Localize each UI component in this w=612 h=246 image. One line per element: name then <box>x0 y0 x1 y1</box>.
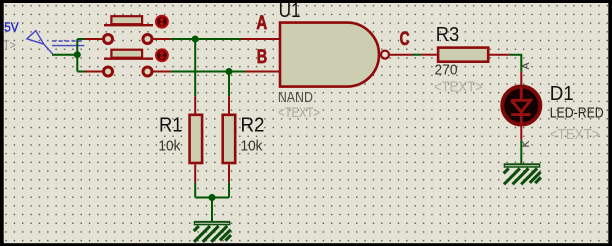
pin: button2 right pin <box>153 71 171 73</box>
wire: node B down to R2 <box>228 72 230 97</box>
wire: button2 to node B <box>171 71 246 73</box>
junction node B <box>226 68 233 75</box>
svg-text:<TEXT>: <TEXT> <box>550 126 600 143</box>
ground symbol (right) <box>504 163 541 184</box>
svg-text:B: B <box>257 47 268 68</box>
wire: LED cathode to right ground <box>520 140 522 163</box>
junction node A <box>192 36 199 43</box>
svg-text:T>: T> <box>3 40 16 52</box>
wire: branch to button2 left <box>77 71 84 73</box>
junction at power feed <box>74 51 81 58</box>
pin: LED anode pin <box>520 72 522 86</box>
U1 output inversion bubble <box>381 51 389 59</box>
wire: branch to button1 left <box>77 38 84 40</box>
pin: button1 left pin <box>85 38 104 40</box>
svg-text:<TEXT>: <TEXT> <box>278 104 320 120</box>
wire: node A down to R1 <box>194 39 196 96</box>
NAND gate U1 (74xx) <box>280 23 379 87</box>
pin: R3 left pin <box>421 54 437 56</box>
wire: bottom bus between R1 and R2 <box>195 197 229 199</box>
button SW1 actuator (interactive red dot) <box>156 16 168 28</box>
wire: button1 to node A <box>171 38 241 40</box>
svg-text:A: A <box>256 13 267 34</box>
wire: R3 to LED elbow <box>510 55 522 72</box>
wire: node C <box>413 54 422 56</box>
wire: down to left ground <box>211 198 213 222</box>
pin: button1 right pin <box>153 38 171 40</box>
power source V1 5V: blue terminal symbol <box>27 31 85 54</box>
svg-text:5V: 5V <box>4 20 19 35</box>
wire: vertical feed between button branches <box>76 39 78 72</box>
svg-text:270: 270 <box>435 61 458 78</box>
pin: NAND input A pin <box>241 38 280 40</box>
svg-text:<TEXT>: <TEXT> <box>434 79 483 96</box>
pin: R3 right pin <box>490 54 510 56</box>
pin: U1 output pin <box>389 54 413 56</box>
pin: button2 left pin <box>85 71 104 73</box>
pin: LED cathode pin <box>520 125 522 140</box>
svg-text:R2: R2 <box>241 114 265 136</box>
pin: NAND input B pin <box>245 71 280 73</box>
push button SW1 <box>104 16 154 43</box>
svg-text:U1: U1 <box>279 0 301 22</box>
svg-text:D1: D1 <box>550 83 574 105</box>
LED D1 <box>502 87 540 125</box>
pin: R2 bottom pin <box>228 164 230 182</box>
pin: R1 bottom pin <box>194 164 196 182</box>
resistor R3 <box>438 48 488 62</box>
svg-text:A: A <box>520 62 532 69</box>
button SW2 actuator (interactive red dot) <box>156 49 168 61</box>
svg-text:R1: R1 <box>159 114 183 136</box>
svg-text:LED-RED: LED-RED <box>550 104 604 121</box>
resistor R1 <box>190 115 203 163</box>
push button SW2 <box>104 50 154 76</box>
wire: R1 bottom to ground net <box>194 183 196 198</box>
wire: 5V source to junction <box>52 54 77 56</box>
pin: R2 top pin <box>228 96 230 113</box>
svg-text:10k: 10k <box>158 137 180 154</box>
junction at ground tap <box>209 194 216 201</box>
wire: R2 bottom to ground net <box>228 183 230 198</box>
pin: R1 top pin <box>194 96 196 113</box>
svg-text:10k: 10k <box>241 137 263 154</box>
ground symbol (left) <box>194 221 231 242</box>
svg-text:C: C <box>400 29 410 50</box>
resistor R2 <box>223 115 236 163</box>
svg-text:R3: R3 <box>436 24 460 46</box>
